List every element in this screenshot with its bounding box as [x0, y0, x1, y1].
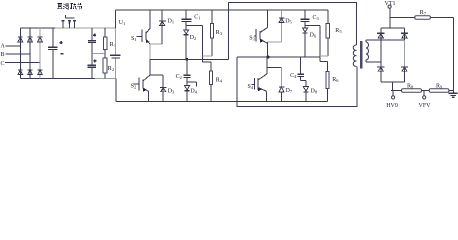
wire mid rail leg B [237, 56, 320, 58]
label DC link text [57, 3, 82, 9]
resistor R4 [203, 62, 213, 101]
wire secondary top [366, 39, 405, 41]
wire phase C [5, 62, 40, 64]
diode rect bottom B [28, 70, 33, 75]
terminal VT1 [388, 5, 391, 8]
wire inverter top rail [116, 9, 329, 11]
svg-text:D6: D6 [310, 33, 317, 39]
HV bridge top node [381, 27, 405, 29]
snubber capacitor C1 [182, 10, 192, 30]
diode rect top C [38, 37, 43, 42]
snubber diode D2 [184, 30, 189, 59]
snubber capacitor C4 [297, 57, 304, 81]
wire rectifier leg 3 [39, 28, 41, 79]
wire loop bottom [237, 57, 357, 107]
diode rect top B [28, 37, 33, 42]
wire snubber jog A [186, 25, 202, 62]
diode D3 [160, 75, 167, 102]
diode rect top A [18, 37, 23, 42]
junction dot leg A [185, 58, 188, 61]
ground [449, 93, 458, 97]
diode D1 [159, 10, 166, 44]
transformer core [360, 41, 363, 68]
wire snubber stub A2 [187, 82, 196, 87]
svg-text:R6: R6 [332, 77, 339, 83]
svg-text:S2: S2 [131, 84, 137, 90]
wire snubber jog B [305, 26, 320, 62]
transistor S1 [137, 10, 163, 59]
wire VT1 riser [389, 8, 391, 28]
resistor R7 [415, 16, 431, 19]
wire secondary bottom [366, 61, 381, 63]
terminal VFV [423, 91, 425, 96]
capacitor DC bulk [110, 28, 121, 79]
transformer secondary [366, 42, 369, 60]
svg-text:D7: D7 [286, 88, 293, 94]
svg-text:R9: R9 [436, 83, 443, 89]
svg-text:C2: C2 [176, 74, 182, 80]
wire rectifier top bus [20, 27, 55, 29]
diode rect bottom A [18, 70, 23, 75]
svg-text:R2: R2 [108, 66, 114, 72]
wire mid rail leg A [150, 58, 228, 60]
capacitor C-link2 electrolytic [88, 54, 97, 79]
wire phase B [6, 53, 30, 55]
svg-text:C1: C1 [194, 15, 200, 21]
wire phase A [6, 45, 21, 47]
HV diode top-right [401, 33, 408, 38]
wire inverter bottom rail [116, 101, 328, 103]
wire right edge down [453, 18, 455, 93]
svg-text:D5: D5 [285, 19, 292, 25]
svg-text:D1: D1 [168, 19, 175, 25]
capacitor C-link1 electrolytic [88, 28, 96, 54]
svg-text:C: C [1, 61, 5, 67]
svg-text:B: B [1, 52, 5, 58]
svg-text:D3: D3 [168, 88, 175, 94]
svg-text:C3: C3 [313, 15, 320, 21]
svg-text:S1: S1 [131, 36, 137, 42]
wire loop top [228, 3, 356, 60]
wire rectifier bottom bus [20, 78, 95, 80]
resistor R3 [203, 10, 214, 56]
transformer primary [353, 45, 356, 66]
wire bridge output drop [391, 82, 393, 90]
diode D5 [279, 10, 284, 42]
terminal HV0 [392, 91, 394, 96]
HV bridge bottom node [381, 81, 405, 83]
svg-text:VT1: VT1 [385, 1, 396, 7]
svg-text:R7: R7 [420, 10, 427, 16]
resistor R2 [103, 54, 107, 79]
HV diode top-left [377, 33, 384, 38]
wire DC link mid [92, 53, 105, 55]
wire DC+ riser [115, 10, 117, 28]
resistor R8 [402, 89, 422, 92]
resistor R9 [429, 89, 449, 92]
transistor S2 [134, 59, 164, 101]
wire top output [390, 17, 415, 19]
diode rect bottom C [38, 70, 43, 75]
HV bridge right rail [404, 28, 406, 40]
svg-text:VFV: VFV [419, 103, 432, 109]
svg-text:U1: U1 [119, 20, 126, 26]
svg-text:R8: R8 [407, 83, 414, 89]
switch in DC link [61, 15, 76, 28]
snubber capacitor C3 [301, 10, 310, 28]
wire DC- riser [115, 79, 117, 102]
svg-text:C4: C4 [290, 73, 297, 79]
wire rectifier leg 2 [29, 28, 31, 79]
diode D7 [279, 68, 284, 102]
svg-text:D2: D2 [190, 35, 197, 41]
wire bottom output [391, 90, 454, 92]
wire to right edge [430, 17, 453, 19]
svg-text:R5: R5 [335, 28, 342, 34]
resistor R1 [103, 28, 107, 54]
snubber diode D4 [185, 86, 190, 102]
HV bridge left rail [380, 28, 382, 82]
HV diode bottom-left [377, 67, 384, 71]
HV diode bottom-right [401, 67, 408, 71]
svg-text:D8: D8 [311, 89, 318, 95]
wire rectifier leg 1 [19, 28, 21, 79]
transistor S4 [251, 57, 281, 102]
svg-text:S3: S3 [249, 36, 255, 42]
svg-text:A: A [1, 44, 6, 50]
svg-text:D4: D4 [190, 89, 197, 95]
junction dot leg B [267, 56, 270, 59]
svg-text:R3: R3 [216, 30, 223, 36]
svg-text:R4: R4 [216, 78, 223, 84]
svg-text:HV0: HV0 [386, 103, 398, 109]
transistor S3 [254, 10, 281, 57]
snubber diode D6 [303, 28, 308, 57]
resistor R6 [320, 61, 329, 101]
snubber diode D8 [301, 81, 309, 102]
svg-text:S4: S4 [248, 84, 254, 90]
capacitor DC filter [48, 28, 63, 79]
resistor R5 [320, 10, 329, 56]
snubber capacitor C2 [184, 59, 191, 85]
